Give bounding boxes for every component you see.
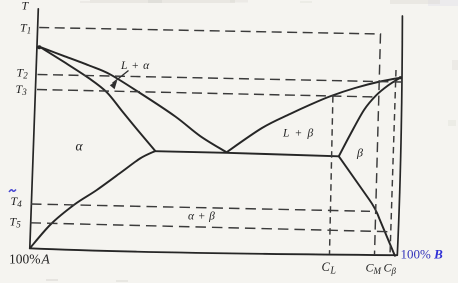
- svg-text:β: β: [356, 146, 363, 160]
- T3 dashed isotherm: [37, 90, 377, 98]
- T5 dashed isotherm: [31, 223, 393, 232]
- right axis (100% B): [397, 16, 402, 255]
- eutectic isotherm: [155, 151, 338, 156]
- solidus right (B side): [339, 78, 401, 157]
- T2 dashed isotherm: [38, 75, 402, 83]
- svg-text:100% B: 100% B: [401, 247, 444, 262]
- beta solvus: [339, 156, 395, 256]
- alpha solvus: [30, 151, 155, 248]
- svg-text:α + β: α + β: [188, 211, 215, 223]
- melting point B blob: [399, 76, 402, 79]
- svg-text:L + α: L + α: [120, 60, 150, 72]
- liquidus left (A side): [39, 47, 226, 153]
- T4 dashed isotherm: [31, 204, 370, 211]
- Cbeta dashed vertical: [390, 70, 396, 255]
- liquidus right (B side): [227, 78, 401, 153]
- melting point A blob: [37, 45, 41, 49]
- CL dashed vertical: [330, 96, 333, 254]
- arrow into L+alpha field: [110, 71, 129, 90]
- solidus left (A side): [39, 47, 155, 151]
- left T axis: [30, 9, 39, 249]
- svg-text:α: α: [76, 139, 84, 154]
- bottom composition axis: [30, 248, 397, 255]
- T1 dashed isotherm + CM vertical corner: [39, 28, 380, 255]
- svg-text:100%A: 100%A: [9, 252, 51, 267]
- blue scribble above T4: [9, 190, 16, 193]
- svg-text:L + β: L + β: [282, 128, 314, 140]
